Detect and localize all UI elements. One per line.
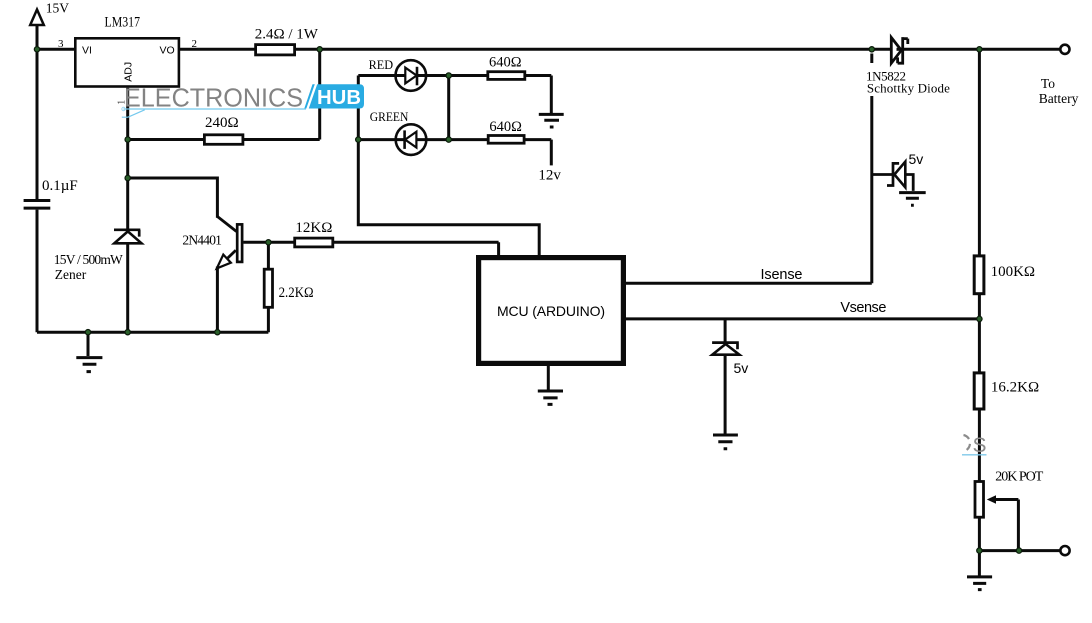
svg-text:2.2KΩ: 2.2KΩ (279, 285, 314, 301)
node: ground rail at emitter (215, 330, 220, 335)
wire: 2.2K branch down to ground rail (267, 242, 270, 332)
node: divider bottom junction (977, 548, 982, 553)
node: ADJ / 240 junction (125, 137, 130, 142)
wire: left 15V rail (gap at capacitor) (36, 11, 39, 332)
ground symbol (5v zener) (713, 435, 738, 449)
LED green D3 (396, 124, 427, 155)
wire: 5v shunt branch on Isense rail (872, 175, 913, 191)
wire: collector link from ADJ stem (128, 178, 218, 218)
node: Vsense divider junction (977, 316, 982, 321)
terminal circle To Battery (top) (1060, 45, 1069, 54)
ground symbol (main left) (76, 332, 102, 371)
svg-text:640Ω: 640Ω (489, 54, 522, 70)
node: schottky anode junction (869, 47, 874, 52)
svg-text:15V / 500mW: 15V / 500mW (54, 252, 123, 267)
watermark leftover glyphs near divider (962, 434, 987, 457)
node: battery rail junction (977, 47, 982, 52)
svg-text:2: 2 (192, 38, 198, 50)
resistor 640 ohm upper (488, 72, 525, 80)
svg-text:Isense: Isense (761, 267, 803, 283)
resistor 2.2K ohm (264, 269, 272, 307)
svg-text:5v: 5v (734, 360, 749, 376)
svg-text:16.2KΩ: 16.2KΩ (991, 380, 1039, 396)
svg-text:ADJ: ADJ (123, 62, 135, 82)
wire: Vsense line from MCU to divider node (626, 317, 979, 320)
potentiometer 20K POT (975, 482, 1018, 551)
svg-text:ELECTRONICS: ELECTRONICS (124, 85, 303, 113)
transistor Q1 2N4401 (217, 217, 242, 269)
ground symbol (Isense clamp) (899, 193, 926, 206)
capacitor C 0.1uF plates (24, 201, 51, 209)
resistor 240 ohm (204, 135, 243, 145)
wire: LED rows tie bar (447, 76, 450, 140)
resistor 640 ohm lower (488, 136, 524, 144)
wire: bottom right row to battery terminal (979, 549, 1060, 552)
wire: dashed stub below schottky node (870, 54, 873, 64)
MCU (Arduino) box U2 (479, 258, 624, 364)
svg-text:LM317: LM317 (105, 15, 141, 31)
svg-text:RED: RED (369, 57, 394, 72)
wire: 5v zener stem from Vsense (724, 319, 727, 434)
svg-text:S: S (973, 434, 987, 457)
zener diode 5v (Isense clamp, pointing left) (887, 162, 905, 188)
svg-text:20K POT: 20K POT (995, 470, 1043, 485)
resistor 100K ohm (974, 256, 984, 294)
svg-text:VO: VO (160, 44, 175, 56)
ground symbol (divider bottom) (967, 551, 992, 590)
wire: top rail from 15V node through LM317 to battery terminal (37, 48, 1060, 51)
wire: red LED row (358, 74, 551, 77)
svg-text:Vsense: Vsense (840, 300, 886, 316)
wire: lower 640 to 12v stub (550, 140, 553, 166)
svg-text:MCU (ARDUINO): MCU (ARDUINO) (497, 303, 605, 319)
wire: 240 ohm feedback row and riser to output rail (128, 49, 320, 139)
node: output sense junction (317, 47, 322, 52)
node: ground rail at ground symbol (85, 330, 90, 335)
node: red LED row tie junction (446, 73, 451, 78)
node: ADJ / collector junction (125, 175, 130, 180)
svg-text:HUB: HUB (317, 87, 361, 109)
wire: upper 640 to ground stem (550, 76, 553, 114)
wire: LED feed drop from red row to MCU top (358, 76, 539, 259)
svg-text:Battery: Battery (1039, 91, 1079, 106)
LM317 regulator U1 box (75, 38, 179, 86)
wire: bottom ground rail (37, 331, 268, 334)
svg-text:15V: 15V (46, 1, 70, 16)
svg-text:Schottky Diode: Schottky Diode (867, 81, 950, 96)
svg-text:100KΩ: 100KΩ (991, 264, 1035, 280)
wire: emitter down to ground rail (216, 267, 219, 333)
zener diode 5v (MCU protection) (712, 343, 739, 355)
svg-text:12KΩ: 12KΩ (295, 220, 332, 236)
wire: right divider rail (978, 49, 981, 550)
node: base / 12K / 2.2K junction (266, 240, 271, 245)
wire: Isense line from MCU to schottky node (626, 96, 872, 283)
node: 15V input junction (34, 47, 39, 52)
svg-text:Zener: Zener (55, 267, 87, 282)
schottky diode 1N5822 (891, 37, 908, 65)
svg-text:VI: VI (82, 44, 92, 56)
svg-text:2N4401: 2N4401 (182, 232, 222, 247)
zener diode 15V 500mW (114, 230, 142, 244)
svg-text:5v: 5v (909, 151, 924, 167)
svg-text:640Ω: 640Ω (489, 119, 522, 135)
resistor 16.2K ohm (974, 373, 984, 409)
wire: LM317 ADJ stem down to ground rail (126, 88, 129, 332)
ground symbol (MCU) (538, 391, 563, 404)
resistor 2.4ohm/1W (256, 45, 295, 55)
svg-text:3: 3 (58, 38, 64, 50)
label To Battery (1039, 76, 1079, 106)
watermark logo ELECTRONICS HUB (122, 84, 364, 118)
node: green LED row left junction (356, 137, 361, 142)
svg-text:12v: 12v (538, 167, 561, 183)
terminal circle (pot wiper out) (1060, 546, 1069, 555)
LED red D2 (396, 60, 427, 91)
wire: green LED row (358, 138, 551, 141)
svg-text:240Ω: 240Ω (205, 115, 239, 131)
ground symbol (LED red) (539, 114, 564, 127)
svg-text:2.4Ω / 1W: 2.4Ω / 1W (255, 27, 319, 43)
node: ground rail at zener (125, 330, 130, 335)
svg-text:GREEN: GREEN (370, 109, 409, 124)
node: pot wiper junction (1016, 548, 1021, 553)
node: green LED row tie junction (446, 137, 451, 142)
svg-text:0.1µF: 0.1µF (42, 178, 78, 194)
svg-text:To: To (1041, 76, 1055, 91)
power flag 15V arrow (30, 10, 44, 26)
wire: base row to MCU with drop (243, 242, 498, 258)
wire: MCU ground stem (547, 366, 550, 390)
resistor 12K ohm (295, 238, 333, 247)
